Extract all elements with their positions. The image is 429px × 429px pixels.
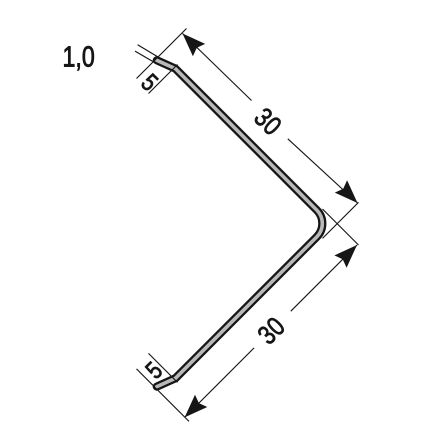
svg-text:30: 30 [253, 312, 292, 351]
extension line B1 through bottom tip [137, 369, 190, 422]
profile outline (black) [157, 60, 323, 386]
svg-text:5: 5 [140, 356, 168, 384]
leader line L1 thickness outer face [138, 45, 159, 57]
extension line E1 corner (for top 30) [323, 202, 359, 238]
arrowhead A2 corner (points down-right) [335, 180, 358, 203]
extension line B2 through bottom bend [149, 353, 178, 382]
leader line L2 thickness inner face [135, 51, 158, 64]
dimension line top 30 segment 2 [288, 139, 358, 203]
dimension line top 30 segment 1 [183, 34, 252, 101]
dimension line bottom 30 segment 2 [185, 348, 255, 418]
arrowhead A4 bottom (points down-left) [185, 395, 208, 418]
svg-text:30: 30 [248, 103, 287, 142]
profile grey core fill [157, 60, 323, 386]
arrowhead A3 corner (points up-right) [334, 245, 357, 268]
extension line E2 corner (for bottom 30) [323, 209, 359, 245]
extension line T1 through top tip [137, 29, 187, 79]
svg-text:1,0: 1,0 [62, 40, 94, 73]
extension line T2 through top bend [149, 65, 178, 94]
arrowhead A1 top (points up-left) [183, 34, 206, 57]
dimension line bottom 30 segment 1 [291, 245, 357, 311]
